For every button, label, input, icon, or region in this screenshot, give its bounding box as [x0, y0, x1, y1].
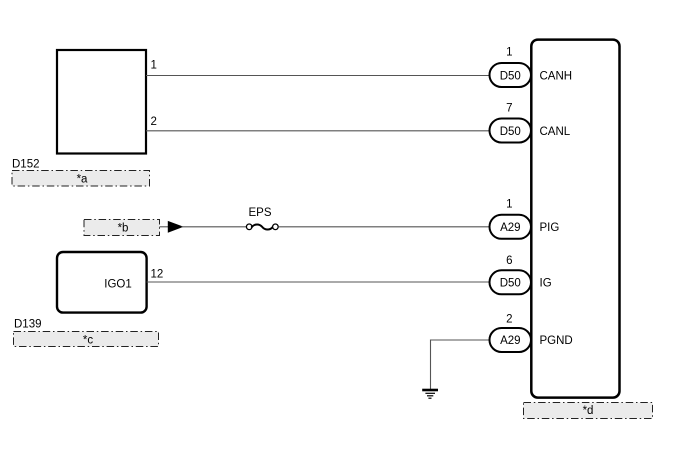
svg-text:6: 6 [506, 255, 512, 267]
svg-text:1: 1 [506, 199, 512, 211]
connector cavity A29 pin1 [490, 215, 532, 239]
arrow (power feed symbol) [168, 222, 182, 232]
footnote box *d [524, 403, 653, 419]
wire (arrow to fuse EPS) [182, 226, 247, 228]
footnote box *c [14, 332, 159, 347]
connector cavity D50 pin6 [490, 270, 532, 294]
svg-text:IG: IG [540, 277, 552, 289]
svg-text:2: 2 [506, 313, 512, 325]
wire CANL (D152 pin2 to D50 pin7) [146, 130, 490, 132]
fuse EPS [246, 224, 278, 230]
wire PGND (A29 pin2 to ground) [431, 340, 491, 390]
svg-text:D139: D139 [14, 319, 42, 331]
svg-text:*a: *a [77, 174, 88, 186]
connector block D152 (top-left box) [57, 50, 146, 154]
wire IG (IGO1 pin12 to D50 pin6) [147, 281, 490, 283]
svg-text:CANH: CANH [540, 70, 573, 82]
svg-text:D152: D152 [12, 159, 40, 171]
ECU block U1 (right rounded rectangle) [531, 40, 619, 398]
svg-text:2: 2 [151, 116, 157, 128]
svg-text:12: 12 [151, 269, 164, 281]
svg-text:A29: A29 [500, 335, 520, 347]
footnote box *a [12, 171, 150, 187]
svg-text:*b: *b [118, 223, 129, 235]
wire CANH (D152 pin1 to D50 pin1) [146, 75, 490, 77]
svg-text:D50: D50 [500, 70, 521, 82]
svg-text:*d: *d [583, 405, 594, 417]
wire (fuse EPS to A29 pin1) [279, 226, 490, 228]
svg-text:7: 7 [506, 103, 512, 115]
svg-text:*c: *c [83, 334, 93, 346]
svg-text:CANL: CANL [540, 126, 571, 138]
svg-text:PGND: PGND [540, 335, 573, 347]
connector cavity A29 pin2 [490, 328, 532, 352]
svg-text:IGO1: IGO1 [104, 278, 131, 290]
svg-text:1: 1 [506, 47, 512, 59]
svg-text:EPS: EPS [248, 207, 271, 219]
wire (*b box to arrow) [160, 226, 170, 228]
svg-text:1: 1 [151, 60, 157, 72]
svg-text:PIG: PIG [540, 222, 560, 234]
footnote box *b [84, 220, 160, 236]
svg-text:A29: A29 [500, 222, 520, 234]
connector block D139 (IGO1 box) [57, 252, 147, 313]
ground [422, 390, 438, 398]
connector cavity D50 pin7 [490, 119, 532, 143]
svg-text:D50: D50 [500, 126, 521, 138]
connector cavity D50 pin1 [490, 63, 532, 87]
svg-text:D50: D50 [500, 277, 521, 289]
